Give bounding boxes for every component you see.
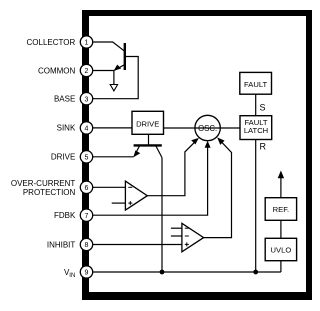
- wire emitter node down: [113, 71, 115, 85]
- pin 3: [80, 93, 92, 105]
- svg-text:DRIVE: DRIVE: [51, 153, 75, 162]
- stub U4 input 1: [171, 227, 182, 229]
- wire UVLO to VIN rail: [280, 261, 282, 272]
- wire DRIVE to Q2 base: [148, 134, 150, 145]
- junction dot Q2 collector: [160, 270, 165, 275]
- transistor Q2: [133, 145, 162, 157]
- comparator U3: [125, 181, 147, 210]
- svg-text:COMMON: COMMON: [38, 66, 76, 75]
- block UVLO: [265, 238, 296, 260]
- svg-text:SINK: SINK: [57, 124, 76, 133]
- junction dot latch R: [253, 270, 258, 275]
- comparator U4: [182, 223, 204, 252]
- pin 6: [80, 181, 92, 193]
- wire Q1 base to pin3: [93, 57, 139, 99]
- svg-text:FDBK: FDBK: [54, 211, 76, 220]
- svg-text:OVER-CURRENT: OVER-CURRENT: [11, 179, 76, 188]
- svg-text:8: 8: [85, 242, 89, 249]
- transistor Q1: [114, 43, 125, 71]
- wire DRIVE to FAULT LATCH through oscillator: [164, 127, 241, 129]
- wire VIN rail: [93, 271, 281, 273]
- svg-text:COLLECTOR: COLLECTOR: [27, 38, 76, 47]
- pin 5: [80, 151, 92, 163]
- block FAULT LATCH: [240, 116, 272, 140]
- svg-text:S: S: [260, 103, 266, 113]
- wire FAULT to latch S: [255, 94, 257, 116]
- pin 8: [80, 238, 92, 250]
- pin 2: [80, 64, 92, 76]
- svg-text:INHIBIT: INHIBIT: [47, 240, 76, 249]
- wire pin4 to DRIVE: [93, 127, 132, 129]
- wire pin6 to comparator: [93, 186, 126, 188]
- arrowhead into oscillator right: [217, 137, 224, 145]
- wire pin2 to Q1 emitter node: [93, 70, 114, 72]
- ground: [110, 85, 117, 91]
- arrow above REF: [280, 176, 282, 198]
- svg-text:3: 3: [85, 96, 89, 103]
- IC outline top: [82, 10, 312, 16]
- IC outline bottom: [82, 292, 312, 300]
- stub U4 input 2: [171, 235, 182, 237]
- wire pin8 INHIBIT to comparator U4: [93, 244, 182, 246]
- wire REF to UVLO: [280, 220, 282, 238]
- svg-text:REF.: REF.: [273, 205, 289, 214]
- svg-text:BASE: BASE: [54, 95, 75, 104]
- svg-text:UVLO: UVLO: [271, 245, 292, 254]
- svg-text:9: 9: [85, 270, 89, 277]
- IC outline left bar: [82, 10, 89, 300]
- pin 9: [80, 266, 92, 278]
- block REF: [265, 198, 296, 221]
- wire latch R down to VIN rail: [255, 140, 257, 273]
- IC outline right: [306, 10, 312, 300]
- wire pin7 FDBK to oscillator: [93, 144, 208, 215]
- svg-text:LATCH: LATCH: [244, 126, 268, 135]
- pin 4: [80, 122, 92, 134]
- svg-text:OSC.: OSC.: [198, 124, 217, 133]
- svg-text:DRIVE: DRIVE: [136, 119, 159, 128]
- arrowhead into oscillator left: [191, 138, 199, 145]
- svg-text:4: 4: [85, 126, 89, 133]
- svg-text:7: 7: [85, 213, 89, 220]
- wire pin1 to Q1 collector: [93, 42, 125, 51]
- wire U3 output to oscillator: [147, 141, 195, 195]
- svg-text:1: 1: [85, 40, 89, 47]
- svg-text:FAULT: FAULT: [244, 80, 267, 89]
- arrowhead into oscillator bottom: [205, 141, 211, 148]
- wire U4 output to oscillator: [204, 141, 232, 238]
- svg-text:R: R: [260, 142, 267, 152]
- block DRIVE: [132, 111, 164, 134]
- svg-text:5: 5: [85, 154, 89, 161]
- pin 7: [80, 209, 92, 221]
- block FAULT: [240, 72, 272, 94]
- svg-text:6: 6: [85, 185, 89, 192]
- svg-text:PROTECTION: PROTECTION: [23, 188, 76, 197]
- svg-text:2: 2: [85, 68, 89, 75]
- stub comparator U3 plus input: [112, 202, 126, 204]
- wire Q2 collector down to VIN rail: [161, 158, 163, 272]
- pin 1: [80, 36, 92, 48]
- oscillator U2 circle: [195, 115, 220, 140]
- wire Q2 emitter to pin5: [93, 156, 134, 158]
